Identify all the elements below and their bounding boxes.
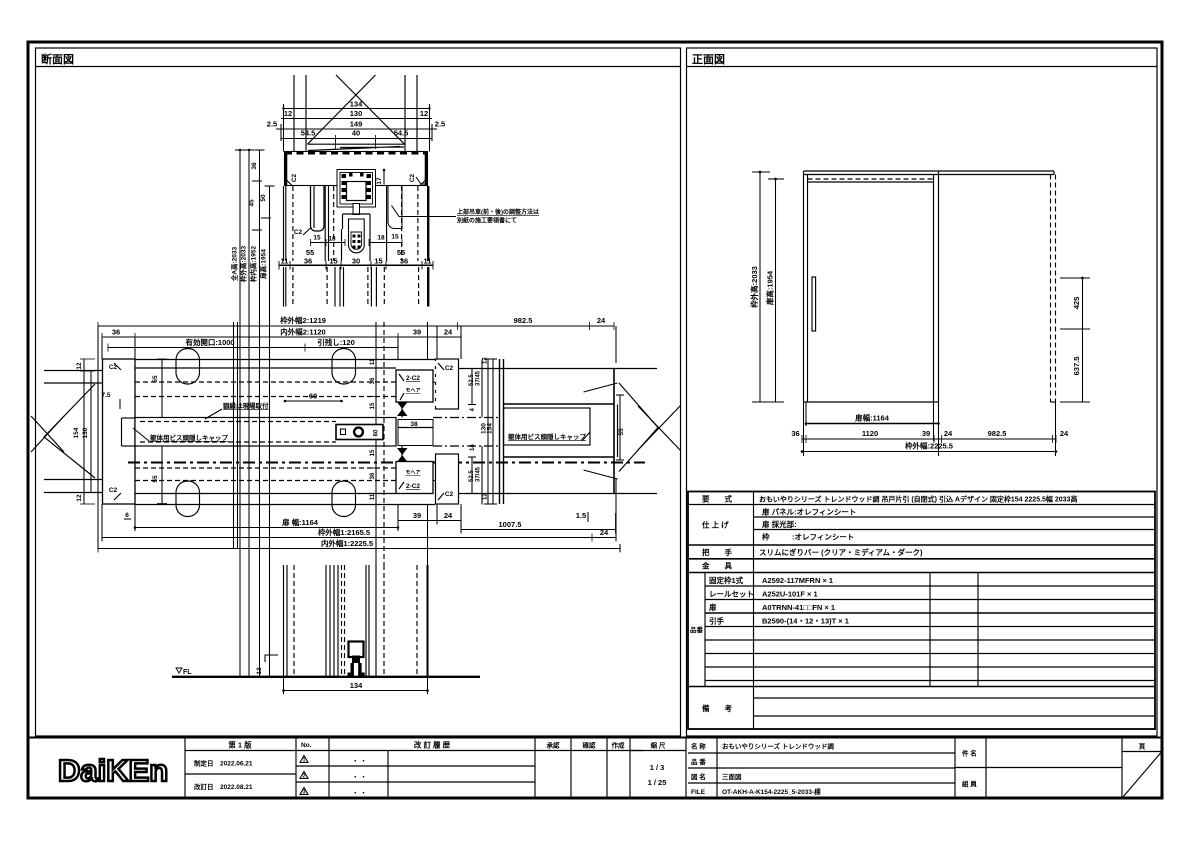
rows 仕上げ [754, 516, 1156, 518]
pocket cap piece [504, 408, 591, 445]
svg-text:金 具: 金 具 [701, 561, 732, 571]
svg-text:39: 39 [413, 328, 421, 337]
svg-text:扉 採光部:: 扉 採光部: [761, 519, 797, 529]
stile 38 box [398, 420, 433, 446]
door closing stile 2-C2 bottom [396, 462, 433, 494]
svg-text:24: 24 [944, 429, 953, 438]
svg-text:縮 尺: 縮 尺 [651, 741, 666, 750]
svg-text:2022.06.21: 2022.06.21 [220, 761, 253, 768]
svg-text:50: 50 [260, 194, 267, 202]
svg-text:枠外幅2:1219: 枠外幅2:1219 [279, 315, 326, 325]
svg-text:有効開口:1000: 有効開口:1000 [185, 337, 234, 347]
svg-text:・ ・: ・ ・ [352, 758, 367, 765]
svg-text:仕 上 げ: 仕 上 げ [701, 520, 729, 530]
svg-text:・ ・: ・ ・ [352, 790, 367, 797]
svg-text:作成: 作成 [612, 741, 626, 750]
svg-text:12: 12 [76, 362, 83, 370]
svg-text:内外幅1:2225.5: 内外幅1:2225.5 [321, 538, 373, 548]
svg-text:確認: 確認 [583, 741, 597, 750]
svg-text:把 手: 把 手 [702, 547, 732, 557]
svg-text:11: 11 [281, 257, 289, 266]
slope wedge [308, 144, 405, 150]
svg-text:15: 15 [370, 449, 376, 456]
left door-edge profile [311, 186, 325, 231]
svg-text:134: 134 [350, 681, 363, 690]
svg-text:12: 12 [76, 494, 83, 502]
bottom wall band [135, 467, 396, 469]
left wall lines [44, 370, 102, 372]
svg-text:36: 36 [791, 429, 799, 438]
svg-text:頁: 頁 [1139, 743, 1146, 751]
leader to site note [392, 206, 457, 217]
svg-text:レールセット: レールセット [709, 590, 754, 599]
svg-text:固定枠1式: 固定枠1式 [709, 575, 744, 585]
svg-text:149: 149 [350, 120, 363, 129]
pocket post C2 top [436, 359, 459, 409]
bottom dim 扉幅1164 [135, 527, 398, 529]
svg-text:637.5: 637.5 [1072, 357, 1081, 376]
svg-text:全A高:2033: 全A高:2033 [230, 246, 239, 282]
svg-text:扉高:1954: 扉高:1954 [765, 270, 775, 306]
revision triangles [300, 756, 308, 763]
title block outer [28, 738, 1162, 799]
svg-text:36: 36 [400, 257, 408, 266]
svg-text:1007.5: 1007.5 [499, 520, 522, 529]
lintel box [285, 152, 428, 186]
door handle [812, 277, 816, 331]
svg-text:12: 12 [420, 109, 428, 118]
right name/person column [954, 738, 956, 799]
svg-text:断面図: 断面図 [41, 52, 74, 66]
svg-text:2-C2: 2-C2 [406, 483, 420, 490]
svg-text:別紙の施工要領書にて: 別紙の施工要領書にて [456, 217, 517, 225]
bottom dim 1007.5 [461, 529, 616, 531]
No column [295, 738, 297, 799]
svg-text:モヘア: モヘア [405, 388, 420, 394]
svg-text:24: 24 [444, 511, 453, 520]
left height dim 枠外高2033 [759, 172, 761, 402]
left jamb [103, 359, 136, 504]
svg-text:C2: C2 [445, 365, 454, 372]
top dim row 1120 [102, 336, 461, 338]
svg-text:11: 11 [424, 257, 432, 266]
left panel header line [36, 66, 681, 68]
door closing stile 2-C2 top [396, 370, 433, 402]
svg-text:55: 55 [152, 475, 159, 483]
svg-text:引手: 引手 [709, 616, 724, 626]
stile pin bottom (bowtie) [397, 448, 408, 462]
lintel chamfer C2 right [420, 178, 428, 186]
svg-text:おもいやりシリーズ トレンドウッド調 吊戸片引 (自閉式): おもいやりシリーズ トレンドウッド調 吊戸片引 (自閉式) 引込 Aデザイン 固… [759, 495, 1077, 504]
left jamb dim 154/130/12 [83, 359, 85, 504]
svg-text:1120: 1120 [862, 429, 878, 438]
svg-text:13: 13 [256, 667, 263, 675]
hanger bracket [343, 214, 371, 229]
verticals below lintel [284, 186, 429, 261]
bottom dim 2225.5 [98, 548, 620, 550]
approval columns [534, 738, 536, 799]
projection verticals through plan [233, 322, 235, 548]
svg-text:425: 425 [1072, 297, 1081, 310]
right handle dims 425 / 637.5 [1082, 278, 1084, 402]
svg-text:45: 45 [249, 199, 256, 207]
svg-text:2022.08.21: 2022.08.21 [220, 784, 253, 791]
svg-text:2-C2: 2-C2 [406, 375, 420, 382]
dim 134 bottom [283, 677, 285, 695]
cross brace X [336, 75, 405, 144]
svg-text:982.5: 982.5 [514, 316, 533, 325]
svg-text:要 式: 要 式 [702, 494, 732, 504]
svg-text:枠外幅1:2165.5: 枠外幅1:2165.5 [317, 527, 370, 537]
svg-text:2.5: 2.5 [267, 120, 277, 129]
row 金具 [688, 572, 1155, 574]
revision history column [328, 738, 330, 799]
svg-text:1: 1 [303, 758, 306, 764]
svg-text:上部吊車(前・後)の調整方法は: 上部吊車(前・後)の調整方法は [457, 208, 539, 216]
rail inner pocket [347, 182, 367, 201]
svg-text:C2: C2 [445, 491, 454, 498]
svg-text:A2592-117MFRN × 1: A2592-117MFRN × 1 [762, 576, 833, 585]
svg-text:枠 :オレフィンシート: 枠 :オレフィンシート [761, 532, 854, 542]
svg-text:品番: 品番 [690, 625, 704, 634]
svg-text:件 名: 件 名 [962, 749, 977, 758]
svg-text:60: 60 [309, 392, 317, 401]
svg-text:・ ・: ・ ・ [352, 774, 367, 781]
svg-text:C2: C2 [409, 173, 416, 182]
door top rail dashed [808, 178, 934, 180]
品番 section [704, 573, 706, 687]
svg-text:18: 18 [328, 236, 336, 243]
svg-text:130: 130 [82, 427, 89, 438]
svg-text:C2: C2 [294, 229, 303, 236]
svg-text:7.5: 7.5 [101, 392, 110, 399]
dim extension verticals plan [98, 326, 620, 552]
pocket divider double line [499, 359, 501, 504]
svg-text:36: 36 [251, 162, 258, 170]
elevation: top rail [804, 170, 1055, 172]
svg-text:躯体用ビス頭隠しキャップ: 躯体用ビス頭隠しキャップ [508, 432, 587, 441]
svg-text:6: 6 [125, 512, 129, 519]
svg-text:改 訂 履 歴: 改 訂 履 歴 [414, 740, 451, 750]
row 把手 [688, 558, 1155, 560]
svg-text:モヘア: モヘア [405, 470, 420, 476]
projection lines over door panel [234, 418, 270, 447]
svg-text:15: 15 [374, 257, 382, 266]
row 要式 [688, 504, 1155, 506]
svg-text:図 名: 図 名 [691, 772, 706, 781]
svg-text:1 / 3: 1 / 3 [650, 763, 665, 772]
spec table label column [753, 492, 755, 730]
verticals continuing below section [284, 267, 429, 307]
svg-text:A252U-101F × 1: A252U-101F × 1 [762, 590, 818, 599]
bottom dim 2165.5 [102, 537, 616, 539]
svg-text:内外幅2:1120: 内外幅2:1120 [280, 327, 325, 337]
left break arrow [44, 384, 95, 478]
dim 17 [383, 170, 385, 185]
svg-text:FL: FL [183, 669, 192, 676]
svg-text:36: 36 [304, 257, 312, 266]
bottom dim 39/24 [398, 520, 461, 522]
svg-text:982.5: 982.5 [988, 429, 1007, 438]
door panel plan [135, 418, 396, 447]
spec table outer [688, 492, 1155, 730]
hanger rail outer [337, 170, 376, 208]
svg-text:15: 15 [313, 235, 321, 242]
top dim row 1219 [98, 325, 614, 327]
svg-text:37/45: 37/45 [476, 466, 482, 482]
right panel frame [687, 48, 1158, 736]
svg-text:扉高:1954: 扉高:1954 [259, 249, 268, 279]
FL mark [176, 668, 182, 673]
svg-text:54.5: 54.5 [394, 129, 409, 138]
svg-text:枠内高:1952: 枠内高:1952 [249, 246, 258, 283]
svg-text:154: 154 [73, 427, 80, 438]
svg-text:39: 39 [922, 429, 930, 438]
svg-text:60: 60 [374, 429, 380, 436]
svg-text:額縁は現場取付: 額縁は現場取付 [222, 401, 269, 410]
rail teeth left [342, 173, 372, 200]
svg-text:30: 30 [352, 257, 360, 266]
svg-text:B2590-(14・12・13)T × 1: B2590-(14・12・13)T × 1 [762, 617, 849, 626]
svg-text:制定日: 制定日 [194, 759, 214, 768]
svg-text:130: 130 [350, 109, 363, 118]
svg-text:躯体用ビス頭隠しキャップ: 躯体用ビス頭隠しキャップ [150, 433, 229, 442]
備考 section [754, 697, 1156, 699]
svg-text:15: 15 [329, 257, 337, 266]
svg-text:38: 38 [410, 421, 418, 428]
svg-text:扉幅:1164: 扉幅:1164 [854, 413, 890, 423]
lintel chamfer C2 left [285, 178, 293, 186]
svg-text:おもいやりシリーズ トレンドウッド調: おもいやりシリーズ トレンドウッド調 [722, 742, 834, 751]
page column [1121, 738, 1123, 799]
right break arrow [619, 383, 658, 472]
scale column [629, 738, 631, 799]
hanger stem [353, 204, 360, 215]
svg-text:134: 134 [350, 100, 363, 109]
svg-text:1.5: 1.5 [576, 511, 586, 520]
svg-text:15: 15 [370, 402, 376, 409]
svg-text:24: 24 [600, 528, 609, 537]
svg-text:枠外高:2033: 枠外高:2033 [749, 266, 759, 309]
pocket post C2 bottom [436, 454, 459, 504]
bottom studs [176, 481, 200, 517]
svg-text:備 考: 備 考 [702, 703, 732, 713]
svg-text:18: 18 [377, 235, 385, 242]
svg-text:14: 14 [470, 444, 476, 451]
lower wall verticals [284, 565, 428, 676]
svg-text:24: 24 [597, 316, 606, 325]
svg-text:1 / 25: 1 / 25 [648, 778, 667, 787]
svg-text:正面図: 正面図 [692, 52, 725, 66]
svg-text:DaiKEn: DaiKEn [58, 753, 168, 788]
svg-text:第 1 版: 第 1 版 [228, 740, 252, 750]
left height dim 扉高1954 [775, 179, 777, 402]
svg-text:扉 パネル:オレフィンシート: 扉 パネル:オレフィンシート [761, 507, 856, 517]
svg-text:12: 12 [284, 109, 292, 118]
pocket track dashed [1050, 175, 1052, 403]
svg-text:24: 24 [1060, 429, 1069, 438]
svg-text:24: 24 [444, 328, 453, 337]
left panel frame [36, 48, 681, 736]
svg-text:扉 幅:1164: 扉 幅:1164 [281, 517, 319, 527]
stile pin top (bowtie) [397, 402, 408, 416]
vertical dim line with rotated labels [375, 322, 377, 565]
svg-text:36: 36 [112, 328, 120, 337]
right wall end [459, 368, 658, 370]
svg-text:No.: No. [301, 742, 312, 749]
svg-text:54.5: 54.5 [301, 129, 316, 138]
svg-text:15: 15 [391, 234, 399, 241]
svg-text:11: 11 [370, 358, 376, 365]
svg-text:36: 36 [370, 377, 376, 384]
bottom dim line of section [279, 264, 433, 266]
svg-text:扉: 扉 [708, 602, 717, 612]
dim extension verticals [283, 104, 285, 152]
svg-text:承認: 承認 [547, 741, 561, 750]
svg-text:C2: C2 [291, 173, 298, 182]
floor guide [349, 642, 364, 658]
svg-text:36: 36 [370, 472, 376, 479]
top dim row 有効開口 [108, 347, 398, 349]
wall stud lines above lintel [293, 75, 295, 152]
svg-text:2: 2 [303, 774, 306, 780]
handle in plan [336, 425, 383, 440]
svg-text:37/45: 37/45 [476, 370, 482, 386]
top studs [176, 349, 200, 385]
svg-text:三面図: 三面図 [722, 772, 742, 781]
svg-text:17: 17 [376, 177, 383, 185]
height dim extension lines [235, 150, 275, 676]
roller capsule [349, 219, 365, 253]
svg-text:品 番: 品 番 [691, 757, 706, 766]
svg-text:3: 3 [303, 790, 306, 796]
svg-text:引残し:120: 引残し:120 [317, 337, 355, 347]
rail centerline [128, 462, 645, 464]
svg-text:C2: C2 [109, 364, 118, 371]
svg-text:11: 11 [370, 493, 376, 500]
right door-edge profile [388, 186, 402, 229]
right panel header line [687, 66, 1158, 68]
svg-text:C2: C2 [109, 487, 118, 494]
svg-text:55: 55 [618, 428, 625, 436]
svg-text:FILE: FILE [691, 789, 706, 796]
svg-text:組 員: 組 員 [962, 779, 977, 788]
svg-text:39: 39 [413, 511, 421, 520]
svg-text:40: 40 [352, 129, 360, 138]
svg-text:名 称: 名 称 [691, 742, 706, 751]
svg-text:枠外高:2033: 枠外高:2033 [239, 246, 248, 283]
svg-text:OT-AKH-A-K154-2225_5-2033-標: OT-AKH-A-K154-2225_5-2033-標 [722, 787, 821, 796]
elevation: door panel [803, 171, 805, 402]
svg-text:改訂日: 改訂日 [194, 782, 214, 791]
floor line [172, 676, 480, 678]
bottom dim extensions [803, 402, 805, 456]
name column [685, 738, 687, 799]
svg-text:スリムにぎりバー (クリア・ミディアム・ダーク): スリムにぎりバー (クリア・ミディアム・ダーク) [759, 547, 923, 557]
svg-text:2.5: 2.5 [435, 120, 445, 129]
svg-text:枠外幅:2225.5: 枠外幅:2225.5 [904, 441, 953, 451]
revision date column [184, 738, 186, 799]
pocket interior walls [504, 403, 615, 405]
svg-text:A0TRNN-41□□FN × 1: A0TRNN-41□□FN × 1 [762, 603, 835, 612]
top wall band [135, 359, 435, 361]
